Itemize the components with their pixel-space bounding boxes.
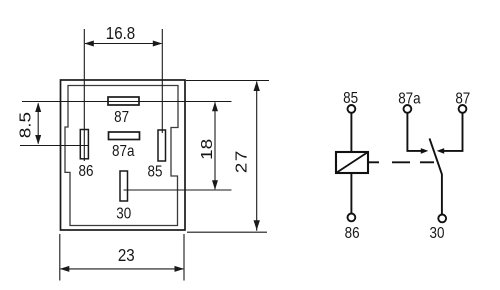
- svg-text:8.5: 8.5: [16, 112, 34, 138]
- svg-text:87: 87: [114, 109, 129, 126]
- svg-text:30: 30: [116, 206, 131, 223]
- svg-text:16.8: 16.8: [106, 23, 135, 44]
- svg-text:87a: 87a: [112, 143, 135, 160]
- svg-text:86: 86: [79, 163, 94, 180]
- svg-text:85: 85: [148, 163, 163, 180]
- svg-text:27: 27: [232, 149, 250, 173]
- svg-text:30: 30: [430, 225, 445, 242]
- svg-text:87: 87: [455, 91, 470, 108]
- svg-text:18: 18: [198, 139, 216, 160]
- svg-text:87a: 87a: [398, 91, 421, 108]
- svg-text:23: 23: [118, 245, 135, 266]
- svg-text:86: 86: [345, 225, 360, 242]
- svg-text:85: 85: [343, 90, 358, 107]
